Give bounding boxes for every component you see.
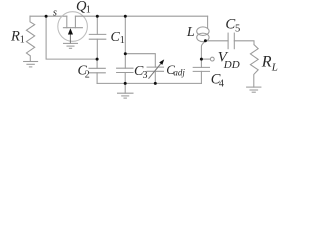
capacitor C1 bbox=[89, 16, 106, 59]
svg-text:R: R bbox=[261, 54, 272, 71]
svg-text:DD: DD bbox=[223, 59, 240, 71]
capacitor Cadj (variable) bbox=[147, 59, 164, 83]
ground (Q1 gate) bbox=[64, 43, 78, 48]
svg-text:C: C bbox=[225, 16, 235, 32]
capacitor C3 bbox=[117, 68, 133, 93]
capacitor C2 bbox=[89, 59, 105, 83]
svg-text:1: 1 bbox=[86, 5, 91, 16]
label C2 bbox=[78, 64, 90, 81]
svg-text:1: 1 bbox=[20, 35, 25, 46]
svg-text:L: L bbox=[186, 25, 195, 40]
label RL bbox=[261, 54, 278, 74]
wire drain branch vertical bbox=[124, 16, 126, 68]
svg-text:3: 3 bbox=[143, 70, 148, 81]
svg-text:1: 1 bbox=[120, 35, 125, 46]
node source-C1-C2 junction bbox=[96, 58, 99, 61]
wire top-left (source rail) bbox=[30, 15, 67, 17]
node dots bbox=[45, 15, 207, 85]
label Q1 bbox=[76, 0, 91, 16]
resistor R1 bbox=[26, 16, 34, 61]
wire to Cadj bbox=[125, 54, 155, 67]
svg-text:s: s bbox=[53, 7, 57, 18]
VDD terminal bbox=[201, 57, 214, 61]
node C3-Cadj junction bbox=[124, 52, 127, 55]
node Cadj bottom junction bbox=[154, 82, 157, 85]
label C3 bbox=[134, 64, 148, 81]
label C1 bbox=[111, 30, 125, 46]
label VDD bbox=[218, 50, 240, 71]
svg-text:4: 4 bbox=[219, 78, 224, 89]
capacitor C5 bbox=[205, 33, 254, 49]
svg-text:2: 2 bbox=[85, 69, 90, 80]
capacitor C4 bbox=[193, 59, 209, 83]
node C3 bottom junction bbox=[124, 82, 127, 85]
node drain branch junction bbox=[124, 15, 127, 18]
node source-R1 junction bbox=[45, 15, 48, 18]
ground (below C3) bbox=[118, 93, 134, 98]
svg-text:L: L bbox=[271, 61, 278, 73]
label Cadj bbox=[166, 62, 185, 77]
svg-text:adj: adj bbox=[173, 68, 185, 78]
resistor RL bbox=[250, 45, 258, 88]
svg-text:5: 5 bbox=[235, 23, 240, 34]
inductor L bbox=[197, 16, 209, 59]
wire source node vertical+horizontal bbox=[46, 16, 97, 59]
node L-VDD-C4 junction bbox=[200, 58, 203, 61]
ground (below R1) bbox=[24, 62, 38, 67]
transistor Q1 bbox=[58, 12, 88, 44]
wire bottom rail bbox=[97, 82, 201, 84]
wire top rail (drain to tank) bbox=[75, 15, 207, 17]
ground (below RL) bbox=[247, 87, 261, 92]
label C4 bbox=[211, 72, 224, 90]
label R1 bbox=[10, 29, 25, 46]
svg-text:R: R bbox=[10, 29, 20, 45]
node L-C5 junction bbox=[204, 39, 207, 42]
node C1 top junction bbox=[96, 15, 99, 18]
label C5 bbox=[225, 16, 240, 34]
